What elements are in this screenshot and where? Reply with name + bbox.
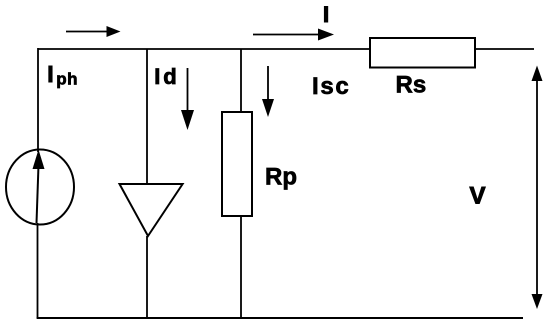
resistor Rs (370, 38, 475, 68)
label Iph (47, 61, 78, 89)
svg-text:Rs: Rs (396, 72, 427, 99)
wire left branch lower (37, 223, 39, 318)
wire top left segment (38, 48, 370, 50)
wire diode branch lower (146, 236, 148, 318)
wire Rp branch upper (240, 49, 242, 112)
wire Rp branch lower (240, 216, 242, 318)
diode D1 (120, 184, 183, 236)
arrow Isc (262, 66, 274, 117)
current source Iph (6, 150, 74, 225)
svg-text:ph: ph (56, 70, 78, 89)
svg-text:I: I (47, 61, 53, 87)
wire bottom (37, 317, 523, 319)
arrow I top (253, 29, 334, 41)
svg-text:Id: Id (154, 64, 179, 89)
svg-text:I: I (323, 2, 329, 27)
arrow current direction top-left (66, 26, 121, 37)
resistor Rp (222, 112, 252, 216)
svg-text:Isc: Isc (312, 73, 350, 100)
arrow V measurement (532, 66, 543, 310)
wire left branch upper (37, 48, 39, 152)
svg-text:V: V (470, 183, 486, 210)
wire top right segment (475, 48, 534, 50)
wire diode branch upper (146, 49, 148, 184)
arrow Id (181, 68, 194, 130)
svg-text:Rp: Rp (265, 164, 297, 191)
